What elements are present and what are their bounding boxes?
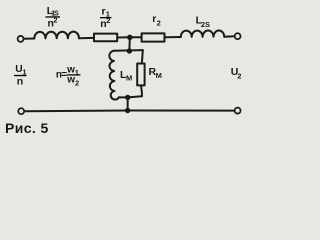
label L2S bbox=[196, 14, 210, 29]
svg-text:2S: 2S bbox=[201, 20, 210, 29]
paper background bbox=[0, 0, 248, 137]
inductor L1S bbox=[34, 32, 79, 39]
wire r2 to L2S bbox=[165, 36, 181, 38]
wire stem node A down to magnetizing branch bbox=[128, 37, 130, 50]
junction node A bbox=[127, 35, 132, 40]
inductor L2S bbox=[181, 30, 225, 37]
terminal right-bottom bbox=[235, 108, 241, 114]
svg-text:2: 2 bbox=[53, 16, 57, 25]
label U2 bbox=[231, 66, 242, 81]
svg-text:n: n bbox=[17, 76, 23, 88]
resistor r1/n2 bbox=[94, 34, 117, 42]
label L1S/n2 fraction bbox=[46, 5, 61, 30]
svg-text:M: M bbox=[126, 74, 132, 83]
terminal left-bottom bbox=[18, 108, 24, 114]
svg-text:2: 2 bbox=[75, 79, 79, 88]
label RM bbox=[149, 66, 162, 80]
svg-text:2: 2 bbox=[106, 16, 110, 25]
wire node A to r2 bbox=[130, 36, 142, 38]
junction on loop bottom bar bbox=[125, 95, 130, 100]
svg-text:2: 2 bbox=[237, 72, 241, 81]
wire right side down to RM bbox=[141, 50, 144, 63]
wire L1S to r1 bbox=[79, 37, 94, 39]
svg-text:Рис. 5: Рис. 5 bbox=[5, 120, 49, 136]
svg-text:M: M bbox=[156, 71, 162, 80]
resistor RM bbox=[137, 64, 144, 86]
wire bottom rail bbox=[25, 110, 235, 113]
junction on loop top bar bbox=[127, 48, 132, 53]
wire terminal to L1S bbox=[24, 38, 34, 40]
wire stem from bottom bar to bottom rail bbox=[127, 97, 129, 110]
resistor r2 bbox=[142, 33, 165, 41]
junction on bottom rail bbox=[125, 108, 130, 113]
terminal left-top bbox=[18, 36, 24, 42]
inductor LM bbox=[109, 51, 118, 100]
wire top bar of magnetizing loop bbox=[114, 49, 143, 52]
label U1/n fraction bbox=[14, 64, 27, 88]
wire RM to bottom bar bbox=[140, 85, 143, 96]
wire L2S to terminal right-top bbox=[224, 35, 234, 38]
terminal right-top bbox=[235, 33, 241, 39]
label r1/n2 fraction bbox=[100, 6, 112, 30]
wire r1 to node A bbox=[117, 36, 130, 38]
label r2 bbox=[152, 13, 161, 27]
wire bottom bar of magnetizing loop bbox=[119, 96, 142, 97]
svg-text:2: 2 bbox=[157, 19, 161, 28]
label n=w1/w2 bbox=[56, 64, 81, 87]
label LM bbox=[120, 69, 132, 83]
svg-text:w: w bbox=[66, 75, 75, 86]
